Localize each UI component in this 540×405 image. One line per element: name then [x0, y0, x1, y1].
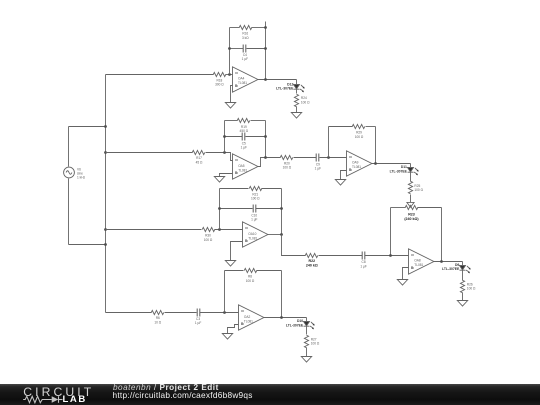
- op-amp OA10: [243, 222, 268, 247]
- wire bus to R18: [106, 74, 214, 76]
- wire source top horizontal: [69, 126, 106, 128]
- potentiometer R23 zigzag: [405, 205, 418, 209]
- wire R30 to OA10: [215, 229, 243, 231]
- label R16 3k: [242, 32, 249, 40]
- label C3 1uF: [195, 317, 201, 325]
- node C10 left: [218, 207, 221, 210]
- resistor R8: [244, 268, 257, 272]
- svg-text:1 µF: 1 µF: [195, 321, 201, 325]
- LED D12: [294, 85, 305, 93]
- label D12 LTL-307EE: [276, 82, 294, 90]
- wire pot left vertical: [390, 208, 392, 256]
- potentiometer R23 body left lead: [391, 207, 406, 209]
- svg-text:1 µF: 1 µF: [251, 218, 257, 222]
- wire OA5 feedback right vertical: [265, 121, 267, 158]
- node OA9 in: [327, 156, 330, 159]
- svg-text:LTL-307EE: LTL-307EE: [276, 87, 294, 91]
- svg-text:45 Ω: 45 Ω: [196, 160, 203, 164]
- wire C8 to OA8: [365, 255, 409, 257]
- wire OA4 feedback left: [229, 28, 231, 75]
- svg-text:LTL-307EE: LTL-307EE: [390, 169, 408, 173]
- wire to D11: [410, 164, 412, 168]
- wiper arrow: [407, 202, 414, 207]
- resistor R6: [151, 310, 164, 314]
- wire bus to R17: [106, 152, 193, 154]
- wire OA9 plus stub: [341, 171, 347, 180]
- wire source top: [68, 127, 70, 167]
- wire R18 to OA4: [226, 74, 233, 76]
- resistor R24: [294, 94, 298, 107]
- svg-text:LTL-307EE: LTL-307EE: [286, 323, 304, 327]
- wire OA2 feedback left: [224, 271, 226, 313]
- wire D9 to R26: [462, 271, 464, 281]
- LED D11: [408, 168, 419, 176]
- node OA10 in: [218, 228, 221, 231]
- resistor R27: [304, 335, 308, 348]
- svg-text:R23: R23: [408, 212, 415, 216]
- resistor R16: [239, 25, 252, 29]
- node OA5 out: [264, 156, 267, 159]
- resistor R18: [213, 72, 226, 76]
- ground OA8: [397, 280, 407, 286]
- capacitor C3: [197, 309, 200, 317]
- node bus-3: [104, 228, 107, 231]
- svg-text:100 Ω: 100 Ω: [355, 135, 364, 139]
- svg-text:R22: R22: [309, 259, 316, 263]
- wire D10 to R27: [306, 327, 308, 335]
- node bus-top: [104, 125, 107, 128]
- wire pot right vertical: [441, 208, 443, 262]
- wire OA5 feedback top-right: [251, 120, 266, 122]
- label C10 1uF: [251, 213, 257, 221]
- wire C4 left: [230, 48, 244, 50]
- svg-text:1 µF: 1 µF: [315, 167, 321, 171]
- label R20 100: [283, 162, 292, 170]
- svg-text:(240 kΩ): (240 kΩ): [404, 217, 419, 221]
- label C4 1uF: [242, 53, 248, 61]
- label R24 100: [301, 96, 310, 104]
- node OA4 out: [264, 78, 267, 81]
- svg-text:TL081: TL081: [238, 81, 247, 85]
- svg-text:100 Ω: 100 Ω: [414, 188, 423, 192]
- ground OA10: [225, 261, 235, 267]
- op-amp OA2: [239, 305, 264, 330]
- wire OA5 feedback top-left: [225, 120, 238, 122]
- node fb1-top: [264, 26, 267, 29]
- label R6 10: [154, 316, 161, 324]
- op-amp OA4: [233, 67, 258, 92]
- node bus-4: [104, 243, 107, 246]
- node C10 right: [280, 207, 283, 210]
- label R23 bold: [404, 212, 419, 220]
- label D9 LTL-307EE: [442, 263, 460, 271]
- svg-text:100 Ω: 100 Ω: [467, 287, 476, 291]
- label R8 100: [246, 275, 255, 283]
- resistor R19: [237, 118, 250, 122]
- wire OA10 feedback left: [219, 189, 221, 230]
- wire bus to R6: [106, 312, 152, 314]
- svg-text:TL081: TL081: [238, 168, 247, 172]
- svg-text:450 Ω: 450 Ω: [240, 129, 249, 133]
- label R27 100: [311, 338, 320, 346]
- CircuitLab logo LAB: [63, 394, 87, 405]
- svg-text:TL081: TL081: [352, 165, 361, 169]
- ground D9: [457, 301, 467, 307]
- wire OA4 output: [258, 79, 297, 81]
- label D11 LTL-307EE: [390, 165, 408, 173]
- wire D11 to R25: [410, 173, 412, 182]
- node C4 left: [228, 47, 231, 50]
- resistor R17: [192, 150, 205, 154]
- svg-text:100 Ω: 100 Ω: [301, 100, 310, 104]
- wire source bottom: [68, 179, 70, 245]
- footer url: [113, 390, 253, 400]
- label D10 LTL-307EE: [286, 319, 304, 327]
- wire R27 to ground: [306, 348, 308, 357]
- label C8 1uF: [360, 260, 366, 268]
- wire C5 left: [225, 136, 243, 138]
- wire OA10 plus stub: [231, 242, 243, 261]
- label OA9 TL081: [352, 161, 361, 169]
- logo resistor and diode: [20, 394, 90, 405]
- wire OA9 feedback left: [328, 127, 330, 158]
- wire bus vertical: [105, 75, 107, 313]
- svg-text:TL081: TL081: [414, 263, 423, 267]
- label OA4 TL081: [238, 77, 247, 85]
- wire R25 to wiper: [410, 195, 412, 204]
- svg-text:100 Ω: 100 Ω: [204, 238, 213, 242]
- op-amp OA5: [233, 154, 258, 179]
- svg-text:1 µF: 1 µF: [360, 264, 366, 268]
- label V6: [77, 167, 86, 179]
- ground D10: [301, 357, 311, 363]
- wire OA9 output: [372, 163, 411, 165]
- resistor R30: [202, 227, 215, 231]
- node OA8 out: [440, 260, 443, 263]
- wire OA2 feedback top-left: [225, 270, 244, 272]
- wire OA9 feedback top-right: [366, 126, 376, 128]
- potentiometer R23 body right lead: [418, 207, 442, 209]
- svg-text:240 kΩ: 240 kΩ: [306, 263, 318, 267]
- resistor R22: [305, 253, 318, 257]
- resistor R20: [280, 155, 293, 159]
- label OA5 TL081: [238, 164, 247, 172]
- resistor R26: [460, 280, 464, 293]
- label OA2 TL081: [244, 315, 253, 323]
- wire D12 to R24: [296, 90, 298, 94]
- label R26 100: [467, 283, 476, 291]
- node bus-2: [104, 151, 107, 154]
- svg-text:1 µF: 1 µF: [242, 57, 248, 61]
- svg-text:300 Ω: 300 Ω: [215, 83, 224, 87]
- LED D10: [304, 322, 315, 330]
- capacitor C5: [242, 133, 245, 141]
- svg-text:LTL-307EE: LTL-307EE: [442, 267, 460, 271]
- wire C5 right: [246, 136, 266, 138]
- wire OA5 output jog: [258, 158, 281, 167]
- node OA9 out: [374, 162, 377, 165]
- node C5 right: [264, 135, 267, 138]
- node OA5 in: [223, 151, 226, 154]
- wire R20 to C9: [294, 157, 317, 159]
- op-amp OA8: [409, 249, 434, 274]
- label R25 100: [414, 184, 423, 192]
- node OA2 out: [280, 316, 283, 319]
- svg-text:1 kHz: 1 kHz: [77, 175, 86, 179]
- wire OA4 plus stub: [231, 86, 233, 103]
- voltage source V6: [64, 167, 75, 178]
- node C4 right: [264, 47, 267, 50]
- svg-text:3 kΩ: 3 kΩ: [242, 36, 249, 40]
- wire R24 to ground: [296, 107, 298, 113]
- wire C3 to OA2: [200, 312, 239, 314]
- wire OA10 feedback top-right: [262, 188, 282, 190]
- wire R26 to ground: [462, 293, 464, 301]
- node OA4 minus: [228, 73, 231, 76]
- wire OA8 plus stub: [403, 268, 409, 280]
- label OA10 TL081: [248, 232, 257, 240]
- label R30 100: [204, 234, 213, 242]
- footer title: [113, 383, 219, 392]
- label R17 45: [196, 156, 203, 164]
- wire OA10 output: [268, 234, 282, 236]
- svg-text:TL081: TL081: [244, 319, 253, 323]
- label R22 bold: [306, 259, 318, 267]
- wire OA5 feedback left: [224, 121, 226, 153]
- node OA2 in: [223, 311, 226, 314]
- wire OA4 feedback top-left: [230, 27, 240, 29]
- svg-text:100 Ω: 100 Ω: [246, 279, 255, 283]
- wire R6 to C3: [165, 312, 197, 314]
- footer bar: [0, 384, 540, 405]
- label R18 300: [215, 78, 224, 86]
- wire OA4 feedback top-right: [252, 27, 266, 29]
- wire OA9 feedback right vertical: [375, 127, 377, 164]
- wire OA2 plus stub: [228, 325, 239, 334]
- wire OA2 feedback top-right: [257, 270, 282, 272]
- wire to D9: [462, 262, 464, 266]
- ground OA2: [222, 334, 232, 340]
- wire OA9 feedback top-left: [329, 126, 353, 128]
- svg-text:100 Ω: 100 Ω: [283, 166, 292, 170]
- wire OA2 output: [264, 317, 307, 319]
- wire to D12: [296, 80, 298, 85]
- ground D12: [291, 113, 301, 119]
- ground OA4: [225, 103, 235, 109]
- resistor R21: [249, 186, 262, 190]
- wire OA10 feedback top-left: [220, 188, 249, 190]
- wire C10 right: [256, 208, 282, 210]
- capacitor C10: [253, 205, 256, 213]
- capacitor C4: [243, 45, 246, 53]
- wire R17 to OA5: [206, 153, 233, 161]
- capacitor C8: [362, 252, 365, 260]
- wire OA5 plus stub: [220, 174, 233, 177]
- resistor R29: [352, 124, 365, 128]
- wire C10 left: [220, 208, 253, 210]
- wire OA10 out down: [282, 235, 306, 256]
- svg-text:1 µF: 1 µF: [241, 146, 247, 150]
- CircuitLab logo text: [23, 385, 94, 399]
- ground OA9: [335, 180, 345, 186]
- label R19 450: [240, 125, 249, 133]
- wire OA10 feedback right vertical: [281, 189, 283, 235]
- svg-text:TL081: TL081: [248, 236, 257, 240]
- op-amp OA9: [347, 151, 372, 176]
- wire bus to R30: [106, 229, 202, 231]
- LED D9: [460, 266, 471, 274]
- wire OA4 feedback right vertical: [265, 22, 267, 80]
- svg-text:100 Ω: 100 Ω: [311, 342, 320, 346]
- node OA10 out: [280, 233, 283, 236]
- wire to D10: [306, 318, 308, 322]
- ground OA5: [214, 177, 224, 183]
- label R29 100: [355, 131, 364, 139]
- resistor R25: [408, 181, 412, 194]
- node OA8 in: [389, 254, 392, 257]
- label C9 1uF: [315, 162, 321, 170]
- label R21 100: [251, 192, 260, 200]
- svg-text:100 Ω: 100 Ω: [251, 197, 260, 201]
- wire OA2 feedback right vertical: [281, 271, 283, 318]
- node C5 left: [223, 135, 226, 138]
- wire C9 to OA9: [320, 157, 347, 159]
- wire source bottom horizontal: [69, 244, 106, 246]
- label C5 1uF: [241, 141, 247, 149]
- label OA8 TL081: [414, 259, 423, 267]
- capacitor C9: [316, 154, 319, 162]
- wire R22 to C8: [319, 255, 363, 257]
- svg-text:10 Ω: 10 Ω: [154, 320, 161, 324]
- wire C4 right: [247, 48, 266, 50]
- wire OA8 output: [434, 261, 463, 263]
